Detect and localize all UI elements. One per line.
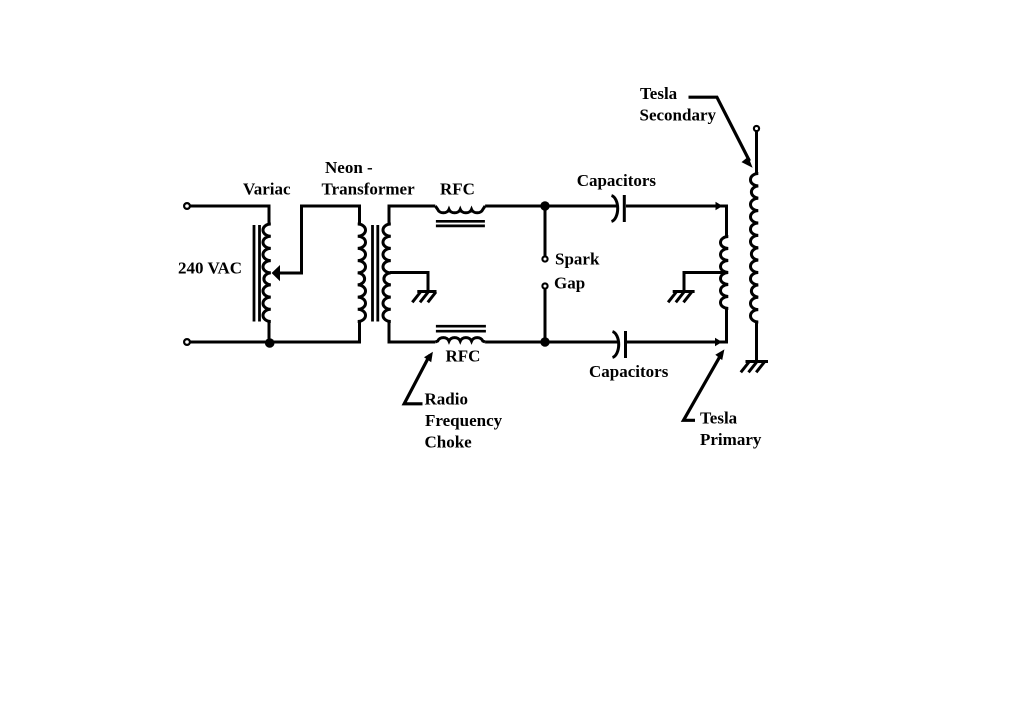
ground neon secondary bbox=[412, 292, 436, 303]
neon transformer primary coil bbox=[358, 224, 366, 322]
wire bottom-left rail bbox=[191, 341, 360, 344]
wire neon primary top lead bbox=[358, 205, 361, 225]
svg-text:Tesla: Tesla bbox=[640, 84, 678, 103]
wire tesla secondary bottom lead bbox=[755, 322, 758, 362]
wire tesla secondary top lead bbox=[755, 132, 758, 174]
wire top rail RFC to spark node bbox=[485, 205, 618, 208]
wire bottom rail cap to primary bbox=[627, 341, 727, 344]
arrowhead leader RFC bbox=[424, 352, 433, 363]
arrowhead leader secondary bbox=[742, 157, 753, 168]
wire bottom rail RFC to spark node bbox=[485, 341, 619, 344]
neon core bar 2 bbox=[376, 225, 379, 322]
wire variac bottom lead bbox=[268, 322, 271, 343]
wire top-left rail bbox=[191, 205, 270, 208]
neon core bar 1 bbox=[371, 225, 374, 322]
tesla primary coil bbox=[720, 237, 728, 309]
RFC top core bar 1 bbox=[436, 220, 485, 223]
ground tesla secondary bbox=[741, 362, 768, 373]
spark gap upper electrode bbox=[542, 256, 547, 261]
RFC bottom coil bbox=[435, 338, 485, 342]
wire neon secondary top lead bbox=[389, 206, 435, 224]
spark gap lower electrode bbox=[542, 283, 547, 288]
capacitor top straight plate bbox=[623, 195, 626, 222]
arrowhead leader primary bbox=[715, 349, 724, 360]
junction dot spark bottom bbox=[540, 337, 549, 346]
variac core bar 2 bbox=[258, 225, 261, 322]
wire variac top lead bbox=[268, 205, 271, 225]
terminal input bottom bbox=[184, 339, 190, 345]
RFC bottom core bar 1 bbox=[436, 325, 486, 328]
wire neon secondary bottom lead bbox=[389, 322, 435, 343]
svg-text:Primary: Primary bbox=[700, 430, 762, 449]
svg-text:Capacitors: Capacitors bbox=[577, 171, 657, 190]
capacitor bottom curved plate bbox=[613, 332, 619, 358]
wire neon primary bottom lead bbox=[358, 322, 361, 344]
variac tap arrowhead bbox=[272, 265, 280, 281]
junction dot spark top bbox=[540, 201, 549, 210]
ground tesla primary bbox=[668, 292, 695, 303]
spark gap lower wire bbox=[544, 289, 547, 342]
svg-text:Choke: Choke bbox=[425, 433, 473, 452]
svg-text:Frequency: Frequency bbox=[425, 411, 503, 430]
terminal input top bbox=[184, 203, 190, 209]
svg-text:Neon -: Neon - bbox=[325, 158, 373, 177]
arrowhead bottom rail bbox=[715, 338, 722, 346]
svg-text:Spark: Spark bbox=[555, 250, 600, 269]
wire tesla primary bottom lead bbox=[725, 309, 728, 344]
variac core bar 1 bbox=[253, 225, 256, 322]
leader line Tesla Primary bbox=[684, 353, 723, 421]
wire tesla primary ground tap bbox=[684, 273, 727, 291]
svg-text:Tesla: Tesla bbox=[700, 409, 738, 428]
svg-text:Secondary: Secondary bbox=[640, 106, 717, 125]
svg-text:RFC: RFC bbox=[440, 180, 475, 199]
capacitor top curved plate bbox=[612, 196, 618, 222]
svg-text:RFC: RFC bbox=[446, 347, 481, 366]
spark gap upper wire bbox=[544, 206, 547, 256]
svg-text:Radio: Radio bbox=[425, 390, 468, 409]
junction dot variac bottom bbox=[265, 338, 275, 348]
RFC bottom core bar 2 bbox=[436, 330, 486, 333]
neon transformer secondary coil bbox=[383, 224, 391, 322]
terminal tesla secondary top bbox=[754, 126, 759, 131]
wire neon secondary center tap bbox=[390, 273, 428, 291]
tesla secondary coil bbox=[750, 174, 758, 323]
svg-text:Gap: Gap bbox=[554, 274, 585, 293]
capacitor bottom straight plate bbox=[624, 331, 627, 358]
wire tesla primary top lead bbox=[725, 205, 728, 237]
svg-text:Capacitors: Capacitors bbox=[589, 362, 669, 381]
svg-text:240 VAC: 240 VAC bbox=[178, 259, 242, 278]
leader line Radio Frequency Choke bbox=[404, 355, 430, 404]
arrowhead top rail bbox=[716, 202, 723, 210]
svg-text:Variac: Variac bbox=[243, 180, 291, 199]
RFC top core bar 2 bbox=[436, 225, 485, 228]
svg-text:Transformer: Transformer bbox=[322, 180, 416, 199]
wire variac tap bbox=[279, 206, 360, 273]
leader line Tesla Secondary bbox=[689, 97, 750, 161]
RFC top coil bbox=[435, 206, 485, 213]
variac coil L1 bbox=[263, 224, 271, 322]
wire top rail cap to primary bbox=[626, 205, 727, 208]
